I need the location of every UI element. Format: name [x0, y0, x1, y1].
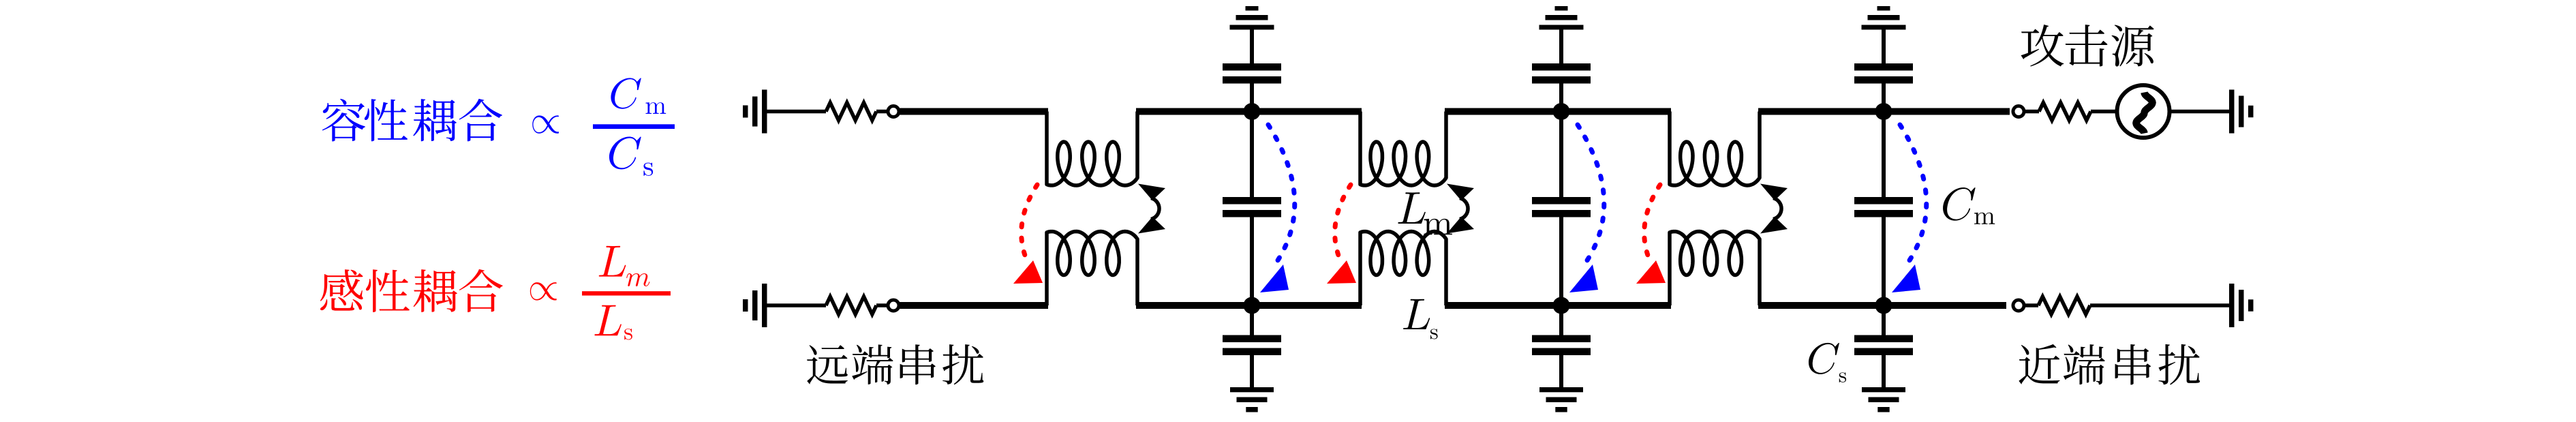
- capacitive-coupling arrow (blue, section 3): [1900, 125, 1927, 262]
- ground (bottom of column 3): [1862, 387, 1905, 412]
- ground (top of column 2): [1539, 6, 1584, 30]
- capacitor Cg1b (victim line to ground): [1250, 305, 1254, 335]
- wire: [899, 108, 1048, 115]
- ground GND2 (victim far end): [743, 284, 767, 327]
- resistor R4 (victim near-end termination): [2038, 297, 2090, 314]
- capacitive-coupling arrow (blue, section 2): [1578, 125, 1604, 262]
- terminal (victim far end): [888, 300, 899, 311]
- capacitive-coupling arrow (blue, section 1): [1268, 125, 1295, 262]
- node A2 (aggressor line): [1553, 103, 1570, 120]
- mutual coupling symbol K3: [1773, 198, 1781, 220]
- capacitor Cm1 (mutual): [1250, 112, 1254, 198]
- formula: proportional-to symbol (red): [530, 282, 557, 300]
- wire: [876, 110, 889, 114]
- wire: [2025, 303, 2038, 307]
- inductor L3b (victim line): [1670, 232, 1760, 306]
- ground GND1 (aggressor far end): [743, 90, 767, 134]
- wire: [1758, 108, 2010, 115]
- capacitor Cm3 (mutual): [1882, 112, 1886, 198]
- label: far-end crosstalk (远端串扰): [807, 344, 983, 385]
- formula: Cm numerator (blue): [611, 78, 641, 108]
- terminal (aggressor near end): [2013, 106, 2024, 117]
- wire: [1758, 302, 2006, 309]
- label: Cm (mutual capacitance): [1943, 187, 1976, 221]
- formula: Ls denominator (red): [594, 305, 621, 336]
- wire: [1136, 302, 1362, 309]
- formula: proportional-to symbol (blue): [532, 115, 559, 133]
- node V3 (victim line): [1875, 297, 1892, 314]
- inductor L2a (aggressor line): [1360, 112, 1446, 186]
- node A3 (aggressor line): [1875, 103, 1892, 120]
- capacitor Cg3a (aggressor line to ground): [1882, 29, 1886, 64]
- wire: [2025, 110, 2039, 114]
- inductor L1a (aggressor line): [1047, 112, 1137, 186]
- inductive-coupling arrow (red, section 3): [1644, 185, 1660, 262]
- terminal (victim near end): [2013, 300, 2024, 311]
- node V1 (victim line): [1244, 297, 1261, 314]
- mutual coupling symbol K2: [1460, 198, 1468, 220]
- label: Lm (mutual inductance): [1398, 192, 1425, 224]
- wire: [1445, 108, 1671, 115]
- label: near-end crosstalk (近端串扰): [2019, 344, 2200, 385]
- ground (top of column 3): [1862, 6, 1906, 30]
- inductor L1b (victim line): [1047, 232, 1137, 306]
- capacitor Cg3b (victim line to ground): [1882, 305, 1886, 335]
- label: Ls (self inductance): [1403, 299, 1430, 329]
- ground (bottom of column 2): [1539, 387, 1583, 412]
- wire: [899, 302, 1048, 309]
- wire: [767, 110, 826, 114]
- label: Cs (self capacitance): [1809, 343, 1839, 374]
- wire: [2170, 110, 2229, 114]
- node V2 (victim line): [1553, 297, 1570, 314]
- ground GND4 (victim near end): [2229, 284, 2254, 327]
- formula: capacitive coupling text (blue): [322, 99, 502, 141]
- label: aggressor source (攻击源): [2021, 25, 2153, 67]
- ground (top of column 1): [1230, 6, 1274, 30]
- inductor L3a (aggressor line): [1670, 112, 1760, 186]
- wire: [1136, 108, 1362, 115]
- inductive-coupling arrow (red, section 1): [1022, 185, 1037, 262]
- mutual coupling symbol K1: [1151, 198, 1159, 220]
- formula: fraction bar (blue): [593, 124, 675, 129]
- formula: Cs denominator (blue): [609, 137, 641, 170]
- terminal (aggressor far end): [888, 106, 899, 117]
- node A1 (aggressor line): [1244, 103, 1261, 120]
- resistor R3 (aggressor source impedance): [2039, 103, 2091, 121]
- ground (bottom of column 1): [1230, 387, 1274, 412]
- inductive-coupling arrow (red, section 2): [1335, 185, 1351, 262]
- formula: inductive coupling text (red): [320, 269, 503, 312]
- capacitor Cm2 (mutual): [1559, 112, 1563, 198]
- wire: [2091, 110, 2117, 114]
- formula: fraction bar (red): [582, 291, 671, 295]
- capacitor Cg2b (victim line to ground): [1559, 305, 1563, 335]
- formula: Lm numerator (red): [599, 246, 626, 277]
- wire: [1445, 302, 1671, 309]
- resistor R2 (victim far-end termination): [826, 297, 876, 314]
- AC source V1 (aggressor): [2117, 85, 2170, 138]
- wire: [767, 303, 826, 307]
- wire: [2090, 303, 2229, 307]
- inductor L2b (victim line): [1360, 232, 1446, 306]
- wire: [876, 303, 889, 307]
- ground GND3 (aggressor near end): [2229, 90, 2254, 134]
- capacitor Cg1a (aggressor line to ground): [1250, 29, 1254, 64]
- resistor R1 (aggressor far-end termination): [826, 103, 876, 121]
- capacitor Cg2a (aggressor line to ground): [1559, 29, 1563, 64]
